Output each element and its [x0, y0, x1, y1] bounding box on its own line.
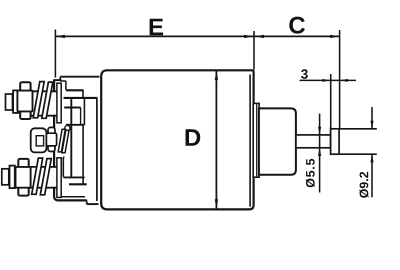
upper spring washer B: [42, 82, 53, 118]
small screw head circle: [65, 125, 70, 130]
flange crimp vertical: [96, 98, 98, 201]
upper insulator boss: [57, 83, 61, 123]
upper recess left vertical: [65, 81, 67, 90]
lower stud lines: [30, 167, 58, 188]
dim 3 line: [300, 79, 357, 81]
end cap bottom extension line: [339, 153, 377, 155]
upper recess right vertical: [82, 90, 84, 97]
label D: [186, 129, 201, 146]
dim 3 left extension line: [330, 74, 332, 128]
mounting ring plate: [253, 103, 259, 177]
flange cap left face: [54, 80, 58, 200]
C right arrowhead: [330, 35, 340, 38]
lower hex nut M8: [18, 159, 28, 196]
lower pocket left vertical: [63, 157, 64, 177]
center spring washer A: [58, 129, 65, 152]
upper pocket line: [64, 107, 80, 109]
E right arrowhead: [244, 35, 254, 38]
center terminal nut stack: [48, 127, 55, 151]
center nut wide middle band: [46, 133, 56, 146]
flange bottom step vertical: [86, 200, 88, 204]
label dia 9.2: [359, 172, 368, 198]
lower spring washer B: [40, 159, 51, 195]
dimension C extension line right: [339, 30, 341, 128]
upper spring washer A: [33, 82, 44, 118]
flange bottom step edge: [87, 203, 99, 205]
lower insulator boss: [57, 158, 61, 198]
dimension E line: [55, 35, 254, 37]
ring inner line: [256, 104, 258, 177]
label 3: [301, 69, 308, 79]
flange mid shelf long: [64, 97, 98, 99]
upper pocket bottom line: [66, 124, 84, 126]
lower pocket line: [63, 176, 84, 178]
lower nut wide facet band: [16, 167, 31, 188]
flange center vertical line: [70, 98, 72, 177]
dia 9.2 upper arrowhead: [370, 121, 373, 129]
dia 9.2 dim line lower: [371, 154, 373, 197]
upper pocket inner vertical: [80, 108, 82, 125]
flange plate top edge: [60, 76, 99, 78]
upper nut wide facet band: [17, 91, 32, 112]
D top arrowhead: [215, 71, 218, 81]
end cap top extension line: [339, 128, 377, 130]
upper pocket right vertical: [83, 98, 85, 125]
lower spring washer A: [32, 158, 43, 194]
dia 9.2 dim line upper: [371, 107, 373, 129]
dimension C line: [254, 35, 340, 37]
lower stud tip: [2, 169, 9, 185]
lower recess shelf: [69, 183, 87, 185]
plunger shaft: [296, 135, 331, 148]
D bottom arrowhead: [215, 199, 218, 209]
shaft end stop cap: [331, 129, 340, 154]
center spring washer B: [62, 130, 69, 153]
label dia 5.5: [306, 159, 315, 187]
dia 5.5 upper arrowhead: [318, 127, 321, 135]
flange cap top edge: [53, 79, 61, 81]
inner plate bottom line: [58, 196, 85, 198]
dimension E extension line left: [54, 30, 56, 78]
upper flat washer: [13, 90, 18, 113]
dim 3 left arrowhead: [322, 79, 330, 82]
center blade inner rect: [36, 136, 43, 146]
front bearing boss cylinder: [259, 108, 296, 174]
E left arrowhead: [56, 35, 66, 38]
solenoid body (case): [101, 70, 253, 209]
label E: [150, 19, 163, 36]
shared extension line at body right: [253, 31, 255, 70]
center terminal blade plate: [31, 128, 47, 152]
upper recess shelf: [66, 89, 84, 91]
label C: [289, 17, 305, 34]
upper hex nut M8: [20, 82, 30, 119]
dia 5.5 dim line upper: [319, 114, 321, 193]
upper terminal stud fill: [31, 92, 58, 115]
dia 9.2 lower arrowhead: [370, 154, 373, 162]
lower terminal stud fill: [30, 168, 58, 187]
C left arrowhead: [255, 35, 265, 38]
flange cap bottom edge: [57, 199, 87, 201]
dim 3 right arrowhead: [340, 79, 348, 82]
case inner rim line: [249, 75, 251, 207]
lower flat washer: [10, 166, 15, 189]
dimension D line: [215, 71, 217, 209]
dia 5.5 lower arrowhead: [318, 148, 321, 156]
upper recess lip horizontal: [60, 80, 66, 82]
flange stack mid vertical: [82, 125, 84, 184]
flange step left vertical: [59, 77, 61, 81]
upper stud lines: [31, 91, 58, 115]
upper stud tip: [6, 94, 13, 110]
